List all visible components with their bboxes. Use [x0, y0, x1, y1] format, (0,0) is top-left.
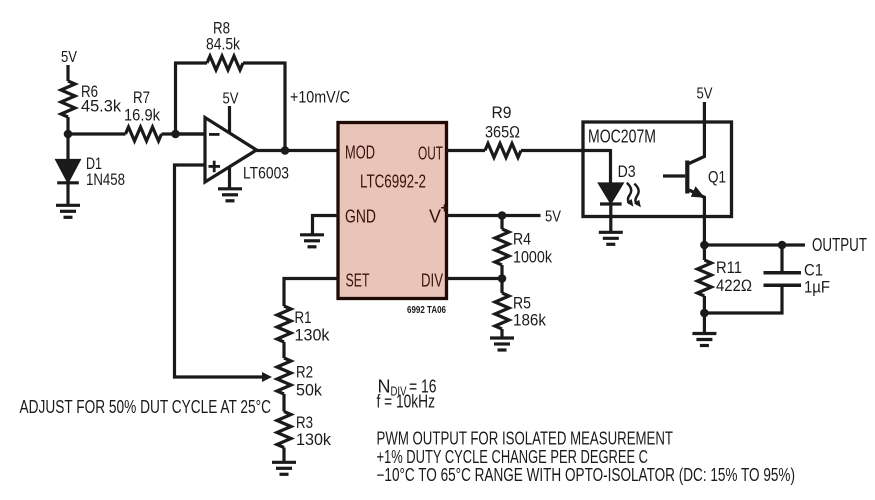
wire Q1 emitter: [689, 190, 704, 245]
svg-text:R5: R5: [513, 295, 531, 313]
svg-text:186k: 186k: [513, 312, 547, 330]
ground (R11/C1): [692, 334, 716, 346]
capacitor C1: [780, 245, 783, 271]
resistor R7: [126, 127, 162, 141]
resistor R6: [61, 81, 75, 117]
wire node A to R7: [68, 132, 126, 135]
svg-text:5V: 5V: [61, 49, 77, 66]
wire op-amp output to MOD: [257, 149, 339, 152]
node 5V label (V+): [545, 209, 561, 226]
wire D3 cathode to ground: [609, 204, 612, 232]
label 6992 TA06: [407, 305, 446, 316]
svg-text:R1: R1: [295, 309, 312, 327]
resistor R1: [277, 306, 291, 342]
svg-text:f = 10kHz: f = 10kHz: [377, 392, 436, 412]
wire D3 anode stem: [609, 149, 612, 184]
wire D1 to ground: [66, 183, 69, 205]
wire 5V to R6: [66, 65, 69, 81]
wire op-amp ground stem: [228, 167, 231, 189]
light emission arrows: [627, 183, 639, 205]
svg-text:R2: R2: [296, 364, 313, 382]
wire feedback right vertical: [283, 62, 286, 151]
svg-text:D3: D3: [618, 163, 636, 181]
svg-text:SET: SET: [346, 271, 370, 291]
svg-text:130k: 130k: [296, 431, 332, 449]
node +10mV/C label: [290, 89, 350, 107]
wire R3 to ground: [282, 448, 285, 463]
wire feedback top right: [243, 61, 285, 64]
wire feedback top left: [174, 61, 207, 64]
wire DIV node to R5: [500, 279, 503, 294]
wire V+ pin to 5V: [447, 214, 541, 217]
node output junction: [700, 241, 709, 250]
svg-text:50k: 50k: [296, 382, 323, 400]
node DIV/R5 junction: [498, 274, 507, 283]
svg-text:1000k: 1000k: [513, 249, 553, 267]
wire R9 into opto box to D3 branch: [521, 149, 611, 152]
wire R2 to R3: [282, 394, 285, 412]
wire R4 to DIV node: [500, 265, 503, 279]
svg-text:R4: R4: [513, 231, 531, 249]
svg-text:OUT: OUT: [418, 144, 443, 164]
ground (op-amp): [218, 189, 242, 201]
svg-text:16.9k: 16.9k: [124, 107, 161, 125]
resistor R2 (pot): [277, 358, 291, 394]
wire bottom node to ground: [703, 313, 706, 334]
wire minus input: [176, 132, 206, 135]
svg-text:ADJUST FOR 50% DUT CYCLE AT 25: ADJUST FOR 50% DUT CYCLE AT 25°C: [20, 397, 272, 417]
svg-text:V: V: [429, 207, 441, 227]
wire feedback left vertical: [174, 63, 177, 134]
svg-text:45.3k: 45.3k: [81, 98, 122, 116]
svg-text:C1: C1: [804, 262, 823, 280]
svg-text:5V: 5V: [545, 209, 561, 226]
node B junction: [171, 130, 180, 139]
svg-text:GND: GND: [345, 207, 376, 227]
diode D1: [57, 161, 79, 182]
svg-text:+10mV/C: +10mV/C: [290, 89, 350, 107]
wire GND pin: [313, 216, 339, 235]
svg-text:R3: R3: [296, 414, 313, 432]
svg-text:DIV: DIV: [421, 271, 443, 291]
svg-text:R11: R11: [716, 259, 742, 277]
wire R6 to node A: [66, 117, 69, 136]
wire node A to D1: [66, 134, 69, 161]
svg-text:1µF: 1µF: [804, 279, 830, 297]
wire op-amp 5V stem: [228, 106, 231, 134]
wire plus input: [175, 165, 263, 377]
wire SET pin: [284, 279, 338, 307]
ground (D1): [56, 205, 80, 217]
svg-text:LT6003: LT6003: [243, 165, 289, 183]
transistor Q1: [685, 161, 689, 194]
resistor R11: [703, 245, 706, 260]
wire OUT pin to R9: [447, 149, 486, 152]
wire R11 to bottom node: [703, 296, 706, 313]
svg-text:OUTPUT: OUTPUT: [812, 235, 867, 255]
label NDIV = 16: [377, 377, 437, 412]
svg-text:5V: 5V: [223, 91, 239, 108]
wiper arrow head: [262, 372, 272, 382]
wire C1 bottom to node: [704, 287, 782, 313]
svg-text:422Ω: 422Ω: [716, 277, 752, 295]
svg-text:+1% DUTY CYCLE CHANGE PER DEGR: +1% DUTY CYCLE CHANGE PER DEGREE C: [377, 447, 649, 467]
node C junction (op-amp output): [281, 146, 290, 155]
node 5V top-left label: [61, 49, 77, 66]
svg-text:MOD: MOD: [345, 143, 375, 163]
svg-text:130k: 130k: [295, 327, 331, 345]
label ADJUST note: [20, 397, 272, 417]
diode D3 (LED): [600, 184, 622, 202]
ground (IC GND): [300, 235, 324, 247]
resistor R9: [485, 144, 521, 158]
svg-text:−10°C TO 65°C RANGE WITH OPTO-: −10°C TO 65°C RANGE WITH OPTO-ISOLATOR (…: [377, 465, 796, 485]
svg-text:1N458: 1N458: [86, 171, 125, 189]
resistor R3: [277, 412, 291, 448]
node bottom junction: [700, 309, 709, 318]
svg-text:365Ω: 365Ω: [485, 124, 520, 142]
node C1 junction: [778, 241, 787, 250]
wire DIV pin: [447, 277, 503, 280]
ground (R3): [272, 462, 296, 474]
node V+/R4 junction: [498, 211, 507, 220]
svg-text:Q1: Q1: [708, 169, 726, 187]
resistor R5: [495, 293, 509, 329]
svg-text:MOC207M: MOC207M: [588, 127, 656, 147]
svg-text:84.5k: 84.5k: [206, 36, 241, 54]
svg-text:LTC6992-2: LTC6992-2: [360, 172, 426, 192]
resistor R4: [495, 229, 509, 265]
wire R7 to node B: [162, 132, 206, 135]
svg-text:PWM OUTPUT FOR ISOLATED MEASUR: PWM OUTPUT FOR ISOLATED MEASUREMENT: [377, 429, 674, 449]
svg-text:5V: 5V: [697, 86, 713, 103]
wire junction to R4: [500, 216, 503, 230]
resistor R8: [207, 56, 243, 70]
label PWM notes: [377, 429, 796, 486]
svg-text:R9: R9: [492, 104, 512, 122]
wire R5 to ground: [500, 329, 503, 338]
IC U2 LTC6992-2: [338, 123, 447, 299]
wire R1 to R2: [282, 342, 285, 358]
wire 5V to Q1 collector: [689, 102, 704, 164]
opto-isolator U3 MOC207M box: [583, 122, 732, 217]
svg-text:R7: R7: [133, 89, 150, 107]
label OUTPUT: [812, 235, 867, 255]
op-amp 5V supply label: [223, 91, 239, 108]
op-amp U1 LT6003: [205, 118, 257, 183]
node 5V label (Q1): [697, 86, 713, 103]
svg-text:6992 TA06: 6992 TA06: [407, 305, 446, 316]
node A junction: [64, 130, 73, 139]
ground (D3): [599, 232, 623, 244]
ground (R5): [490, 338, 514, 350]
wire output row: [704, 243, 805, 246]
svg-text:+: +: [441, 200, 449, 216]
